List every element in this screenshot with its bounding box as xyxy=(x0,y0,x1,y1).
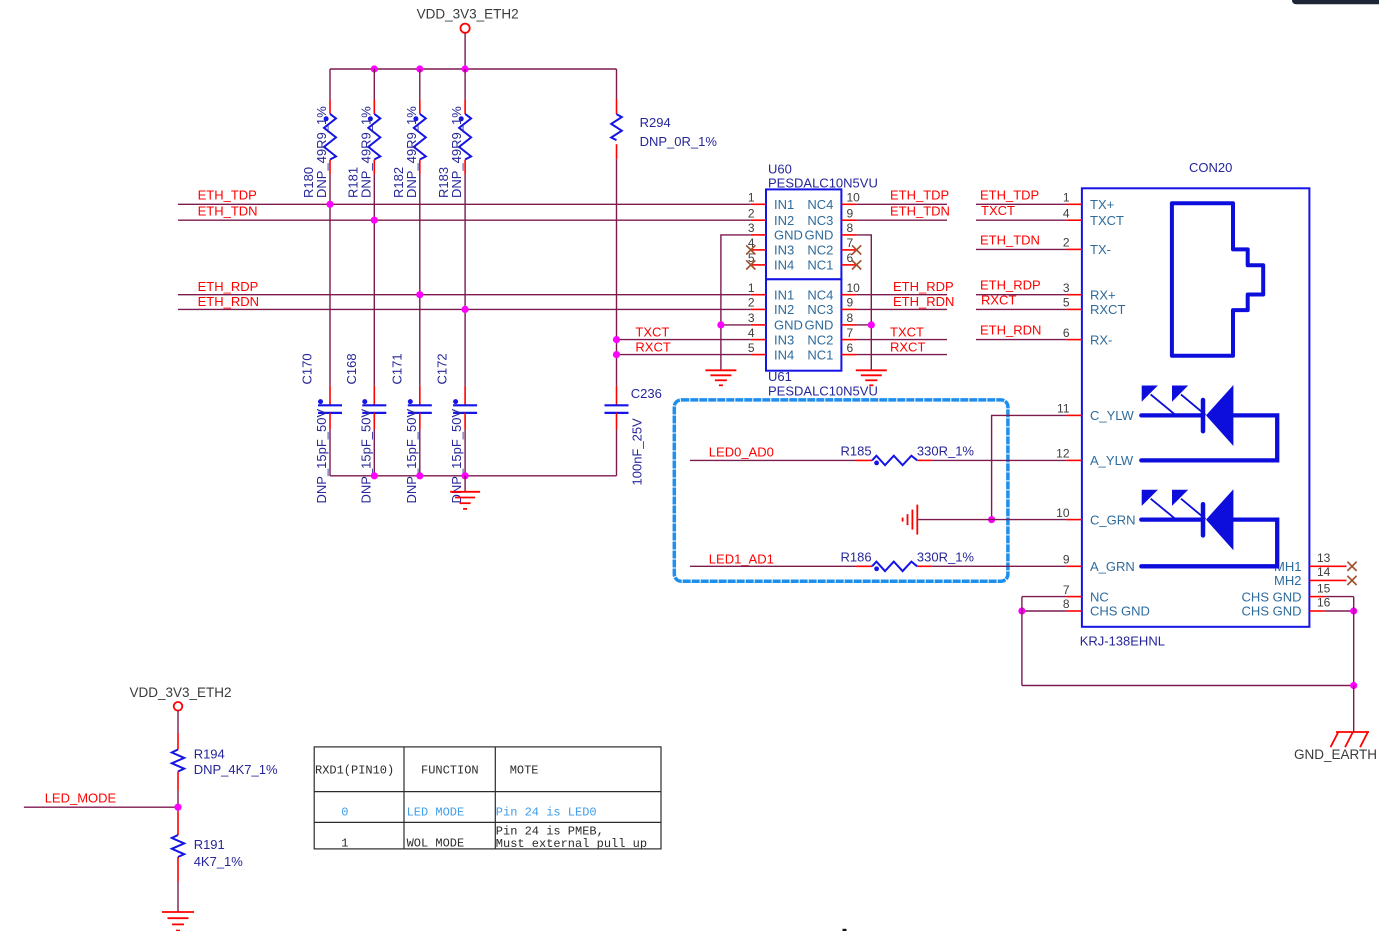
pin 4 TXCT xyxy=(1063,206,1124,228)
svg-text:KRJ-138EHNL: KRJ-138EHNL xyxy=(1080,633,1165,648)
wire cap ground bus xyxy=(330,475,617,477)
wire xyxy=(419,69,421,99)
junction node ETH_RDP xyxy=(416,291,423,298)
wire C_YLW xyxy=(992,415,1067,519)
wire C_GRN xyxy=(918,519,1067,521)
svg-text:TXCT: TXCT xyxy=(635,324,669,339)
svg-text:10: 10 xyxy=(847,191,861,205)
svg-text:6: 6 xyxy=(1063,326,1070,340)
wire pin7 NC xyxy=(1022,596,1067,598)
svg-text:8: 8 xyxy=(1063,597,1070,611)
svg-text:WOL MODE: WOL MODE xyxy=(407,837,465,851)
pin 11 C_YLW xyxy=(1057,402,1135,424)
wire xyxy=(931,459,1066,461)
pin 7 NC xyxy=(1063,583,1109,605)
capacitor C172 xyxy=(435,353,478,503)
svg-text:3: 3 xyxy=(748,311,755,325)
svg-text:IN1: IN1 xyxy=(774,287,794,302)
svg-text:ETH_RDN: ETH_RDN xyxy=(893,294,954,309)
svg-text:C170: C170 xyxy=(300,353,315,384)
resistor R294 xyxy=(611,99,717,159)
svg-text:330R_1%: 330R_1% xyxy=(917,444,975,459)
wire VDD top bus xyxy=(330,68,617,70)
svg-text:ETH_TDN: ETH_TDN xyxy=(198,204,258,219)
connector CON20 KRJ-138EHNL xyxy=(1080,160,1310,649)
svg-text:RXD1(PIN10): RXD1(PIN10) xyxy=(315,764,394,778)
svg-text:CHS GND: CHS GND xyxy=(1242,604,1302,619)
svg-text:9: 9 xyxy=(847,206,854,220)
table RXD1 function xyxy=(314,747,661,851)
wire xyxy=(616,69,618,99)
svg-text:IN1: IN1 xyxy=(774,197,794,212)
wire xyxy=(976,294,1067,296)
svg-text:GND: GND xyxy=(774,228,803,243)
svg-text:DNP_15pF_50V: DNP_15pF_50V xyxy=(404,409,419,504)
no-connect pin 5 U60 xyxy=(746,260,755,269)
svg-text:1: 1 xyxy=(748,191,755,205)
ground (rotated) xyxy=(903,505,918,535)
svg-text:RX+: RX+ xyxy=(1090,287,1116,302)
svg-text:6: 6 xyxy=(847,341,854,355)
junction xyxy=(462,472,469,479)
svg-text:ETH_TDP: ETH_TDP xyxy=(890,187,949,202)
svg-text:5: 5 xyxy=(1063,296,1070,310)
pin 15 CHS GND xyxy=(1242,581,1331,604)
ground xyxy=(450,476,480,509)
svg-text:5: 5 xyxy=(748,341,755,355)
svg-text:1: 1 xyxy=(1063,191,1070,205)
svg-text:CHS GND: CHS GND xyxy=(1242,589,1302,604)
wire xyxy=(856,308,947,310)
wire xyxy=(419,174,421,386)
op-amp U61 PESDALC10N5VU xyxy=(748,279,878,398)
pin 8 CHS GND xyxy=(1063,597,1150,619)
pin 13 MH1 xyxy=(1274,551,1346,574)
resistor R194 DNP_4K7_1% xyxy=(172,733,278,791)
svg-text:LED1_AD1: LED1_AD1 xyxy=(709,551,774,566)
capacitor C236 xyxy=(605,386,662,486)
svg-text:NC2: NC2 xyxy=(807,332,833,347)
wire xyxy=(616,159,618,386)
pin 10 C_GRN xyxy=(1056,506,1135,528)
svg-text:15: 15 xyxy=(1317,581,1331,595)
svg-text:VDD_3V3_ETH2: VDD_3V3_ETH2 xyxy=(130,685,232,700)
capacitor C171 xyxy=(389,353,432,503)
svg-text:GND: GND xyxy=(805,318,834,333)
svg-text:13: 13 xyxy=(1317,551,1331,565)
wire xyxy=(464,174,466,386)
svg-text:330R_1%: 330R_1% xyxy=(917,550,975,565)
wire pin8 CHS GND xyxy=(1022,610,1067,612)
wire ETH_TDP xyxy=(178,203,751,205)
op-amp U60 PESDALC10N5VU xyxy=(748,161,878,279)
wire chassis bottom bus xyxy=(1022,685,1354,687)
wire xyxy=(976,308,1067,310)
no-connect pin 7 U60 xyxy=(852,245,861,254)
svg-text:3: 3 xyxy=(1063,281,1070,295)
svg-text:DNP_15pF_50V: DNP_15pF_50V xyxy=(358,409,373,504)
svg-text:ETH_RDP: ETH_RDP xyxy=(198,279,259,294)
svg-text:RXCT: RXCT xyxy=(981,292,1016,307)
junction xyxy=(416,472,423,479)
svg-text:2: 2 xyxy=(1063,236,1070,250)
svg-text:LED0_AD0: LED0_AD0 xyxy=(709,444,774,459)
pin 16 CHS GND xyxy=(1242,596,1331,619)
svg-text:RXCT: RXCT xyxy=(635,339,670,354)
wire TXCT xyxy=(617,339,751,341)
power symbol VDD_3V3_ETH2 (top) xyxy=(417,7,519,33)
dark corner bar xyxy=(1292,0,1379,4)
wire RXCT xyxy=(617,354,751,356)
LED green (inside CON20) xyxy=(1141,504,1277,566)
junction node ETH_TDP xyxy=(326,201,333,208)
svg-text:ETH_RDN: ETH_RDN xyxy=(198,294,259,309)
resistor R191 4K7_1% xyxy=(172,812,243,882)
wire U60 pin8 GND xyxy=(856,235,871,370)
pin 9 A_GRN xyxy=(1063,553,1135,575)
pin 6 RX- xyxy=(1063,326,1113,348)
wire chassis right vertical xyxy=(1353,597,1355,686)
svg-text:TXCT: TXCT xyxy=(981,203,1015,218)
pin 14 MH2 xyxy=(1274,565,1346,588)
wire pin16 to vertical xyxy=(1325,610,1354,612)
svg-text:MOTE: MOTE xyxy=(510,764,539,778)
junction xyxy=(371,65,378,72)
svg-text:DNP_0R_1%: DNP_0R_1% xyxy=(640,134,718,149)
svg-text:NC2: NC2 xyxy=(807,243,833,258)
svg-text:2: 2 xyxy=(748,206,755,220)
junction xyxy=(988,516,995,523)
svg-text:2: 2 xyxy=(748,296,755,310)
junction xyxy=(416,65,423,72)
svg-text:ETH_RDN: ETH_RDN xyxy=(980,323,1041,338)
junction xyxy=(1018,607,1025,614)
svg-text:TXCT: TXCT xyxy=(1090,213,1124,228)
pin 12 A_YLW xyxy=(1056,447,1134,469)
svg-text:DNP_49R9_1%: DNP_49R9_1% xyxy=(449,106,464,198)
svg-text:R191: R191 xyxy=(194,837,225,852)
wire xyxy=(329,174,331,386)
pin 1 TX+ xyxy=(1063,191,1114,213)
svg-text:NC4: NC4 xyxy=(807,287,833,302)
pin 5 RXCT xyxy=(1063,296,1126,318)
svg-text:LED_MODE: LED_MODE xyxy=(45,790,117,805)
wire U61 pin8 GND xyxy=(856,324,871,326)
svg-text:IN3: IN3 xyxy=(774,332,794,347)
svg-text:8: 8 xyxy=(847,221,854,235)
svg-text:16: 16 xyxy=(1317,596,1331,610)
svg-text:NC3: NC3 xyxy=(807,213,833,228)
resistor R185 330R_1% xyxy=(841,444,975,466)
wire xyxy=(329,69,331,99)
wire xyxy=(177,791,179,812)
pin 2 TX- xyxy=(1063,236,1111,258)
svg-text:4: 4 xyxy=(1063,206,1070,220)
svg-text:Pin 24 is LED0: Pin 24 is LED0 xyxy=(496,806,597,820)
svg-text:VDD_3V3_ETH2: VDD_3V3_ETH2 xyxy=(417,7,519,22)
svg-text:Must external pull up: Must external pull up xyxy=(496,837,647,851)
junction xyxy=(371,472,378,479)
svg-text:R185: R185 xyxy=(841,444,872,459)
wire U61 pin3 GND xyxy=(721,324,751,326)
no-connect pin 6 U60 xyxy=(852,260,861,269)
svg-text:FUNCTION: FUNCTION xyxy=(421,764,479,778)
svg-text:C_GRN: C_GRN xyxy=(1090,512,1136,527)
svg-text:R294: R294 xyxy=(640,115,671,130)
svg-text:TX-: TX- xyxy=(1090,242,1111,257)
svg-text:ETH_TDN: ETH_TDN xyxy=(890,204,950,219)
capacitor C170 xyxy=(300,353,343,503)
svg-text:R194: R194 xyxy=(194,746,225,761)
resistor R182 xyxy=(391,99,426,198)
svg-text:NC1: NC1 xyxy=(807,258,833,273)
pin 3 RX+ xyxy=(1063,281,1116,303)
wire U60 pin3 GND xyxy=(721,235,751,370)
resistor R181 xyxy=(345,99,380,198)
wire xyxy=(419,429,421,475)
wire VDD stem xyxy=(464,33,466,69)
svg-text:TX+: TX+ xyxy=(1090,197,1114,212)
svg-text:RX-: RX- xyxy=(1090,332,1112,347)
resistor R180 xyxy=(301,99,336,198)
svg-text:MH2: MH2 xyxy=(1274,573,1301,588)
svg-text:GND: GND xyxy=(774,318,803,333)
wire xyxy=(976,339,1067,341)
svg-text:IN4: IN4 xyxy=(774,258,794,273)
svg-text:PESDALC10N5VU: PESDALC10N5VU xyxy=(768,175,878,190)
wire ETH_RDP xyxy=(178,294,751,296)
junction node ETH_RDN xyxy=(462,306,469,313)
svg-text:DNP_15pF_50V: DNP_15pF_50V xyxy=(449,409,464,504)
svg-text:DNP_15pF_50V: DNP_15pF_50V xyxy=(314,409,329,504)
svg-text:7: 7 xyxy=(847,326,854,340)
svg-text:NC3: NC3 xyxy=(807,302,833,317)
svg-text:ETH_RDP: ETH_RDP xyxy=(980,278,1041,293)
svg-text:LED MODE: LED MODE xyxy=(407,806,465,820)
svg-text:NC1: NC1 xyxy=(807,347,833,362)
svg-text:C172: C172 xyxy=(435,353,450,384)
junction xyxy=(462,65,469,72)
svg-text:9: 9 xyxy=(847,296,854,310)
svg-text:DNP_49R9_1%: DNP_49R9_1% xyxy=(404,106,419,198)
svg-text:12: 12 xyxy=(1056,447,1070,461)
wire xyxy=(976,219,1067,221)
junction xyxy=(1350,682,1357,689)
junction xyxy=(717,321,724,328)
wire xyxy=(856,219,947,221)
wire ETH_TDN xyxy=(178,219,751,221)
svg-text:ETH_RDP: ETH_RDP xyxy=(893,279,954,294)
wire pin15 to vertical xyxy=(1325,596,1354,598)
svg-text:14: 14 xyxy=(1317,565,1331,579)
svg-text:0: 0 xyxy=(341,806,348,820)
svg-text:11: 11 xyxy=(1057,402,1070,416)
wire xyxy=(856,294,947,296)
wire xyxy=(329,429,331,475)
svg-text:GND: GND xyxy=(805,228,834,243)
wire xyxy=(856,354,947,356)
highlight box (LED resistors) xyxy=(674,400,1008,581)
svg-text:100nF_25V: 100nF_25V xyxy=(630,418,645,486)
svg-text:10: 10 xyxy=(847,281,861,295)
svg-text:U61: U61 xyxy=(768,369,792,384)
svg-text:7: 7 xyxy=(847,236,854,250)
svg-text:C_YLW: C_YLW xyxy=(1090,408,1135,423)
svg-text:CHS GND: CHS GND xyxy=(1090,604,1150,619)
svg-text:4: 4 xyxy=(748,326,755,340)
svg-text:R186: R186 xyxy=(841,550,872,565)
svg-text:A_GRN: A_GRN xyxy=(1090,559,1135,574)
wire xyxy=(976,248,1067,250)
wire ETH_RDN xyxy=(178,308,751,310)
svg-text:8: 8 xyxy=(847,311,854,325)
junction node LED_MODE xyxy=(174,804,181,811)
wire xyxy=(931,565,1066,567)
junction xyxy=(613,336,620,343)
svg-text:DNP_49R9_1%: DNP_49R9_1% xyxy=(314,106,329,198)
svg-text:C171: C171 xyxy=(389,353,404,384)
svg-text:IN3: IN3 xyxy=(774,243,794,258)
svg-text:7: 7 xyxy=(1063,583,1070,597)
wire xyxy=(177,711,179,733)
svg-text:NC: NC xyxy=(1090,589,1109,604)
wire xyxy=(464,429,466,475)
ground xyxy=(705,370,736,385)
svg-text:ETH_TDP: ETH_TDP xyxy=(980,187,1039,202)
svg-text:9: 9 xyxy=(1063,553,1070,567)
svg-text:IN2: IN2 xyxy=(774,213,794,228)
wire xyxy=(856,339,947,341)
junction xyxy=(1350,607,1357,614)
junction node ETH_TDN xyxy=(371,217,378,224)
wire xyxy=(373,69,375,99)
svg-text:DNP_4K7_1%: DNP_4K7_1% xyxy=(194,762,278,777)
wire xyxy=(373,429,375,475)
wire xyxy=(177,882,179,912)
wire xyxy=(616,429,618,475)
capacitor C168 xyxy=(344,353,387,503)
svg-text:A_YLW: A_YLW xyxy=(1090,453,1134,468)
svg-text:RXCT: RXCT xyxy=(890,339,925,354)
ground GND_EARTH xyxy=(1294,732,1377,762)
LED yellow (inside CON20) xyxy=(1141,400,1277,460)
svg-text:C168: C168 xyxy=(344,353,359,384)
svg-text:GND_EARTH: GND_EARTH xyxy=(1294,747,1377,762)
wire xyxy=(373,174,375,386)
wire to GND_EARTH xyxy=(1353,686,1355,733)
svg-text:IN2: IN2 xyxy=(774,302,794,317)
svg-text:ETH_TDP: ETH_TDP xyxy=(198,187,257,202)
svg-text:DNP_49R9_1%: DNP_49R9_1% xyxy=(358,106,373,198)
svg-text:4K7_1%: 4K7_1% xyxy=(194,854,244,869)
svg-text:U60: U60 xyxy=(768,161,792,176)
svg-text:ETH_TDN: ETH_TDN xyxy=(980,232,1040,247)
wire LED1_AD1 xyxy=(690,565,856,567)
no-connect MH1 xyxy=(1347,562,1356,571)
svg-text:CON20: CON20 xyxy=(1189,160,1232,175)
junction xyxy=(868,321,875,328)
wire xyxy=(464,69,466,99)
svg-text:RXCT: RXCT xyxy=(1090,302,1125,317)
wire LED0_AD0 xyxy=(690,459,856,461)
ground xyxy=(162,912,194,931)
no-connect pin 4 U60 xyxy=(746,245,755,254)
svg-text:C236: C236 xyxy=(631,386,662,401)
wire LED_MODE xyxy=(24,806,178,808)
svg-text:PESDALC10N5VU: PESDALC10N5VU xyxy=(768,383,878,398)
svg-text:3: 3 xyxy=(748,221,755,235)
resistor R183 xyxy=(436,99,471,198)
svg-text:10: 10 xyxy=(1056,506,1070,520)
junction xyxy=(613,351,620,358)
ground xyxy=(856,370,887,385)
wire chassis left vertical xyxy=(1021,597,1023,686)
svg-text:IN4: IN4 xyxy=(774,347,794,362)
svg-text:NC4: NC4 xyxy=(807,197,833,212)
power symbol VDD_3V3_ETH2 (bottom) xyxy=(130,685,232,711)
svg-text:1: 1 xyxy=(341,837,348,851)
svg-text:TXCT: TXCT xyxy=(890,324,924,339)
svg-text:1: 1 xyxy=(748,281,755,295)
wire xyxy=(856,203,947,205)
resistor R186 330R_1% xyxy=(841,550,975,572)
RJ45 jack symbol xyxy=(1172,203,1263,356)
no-connect MH2 xyxy=(1347,576,1356,585)
wire xyxy=(976,203,1067,205)
small mark bottom xyxy=(843,929,847,931)
